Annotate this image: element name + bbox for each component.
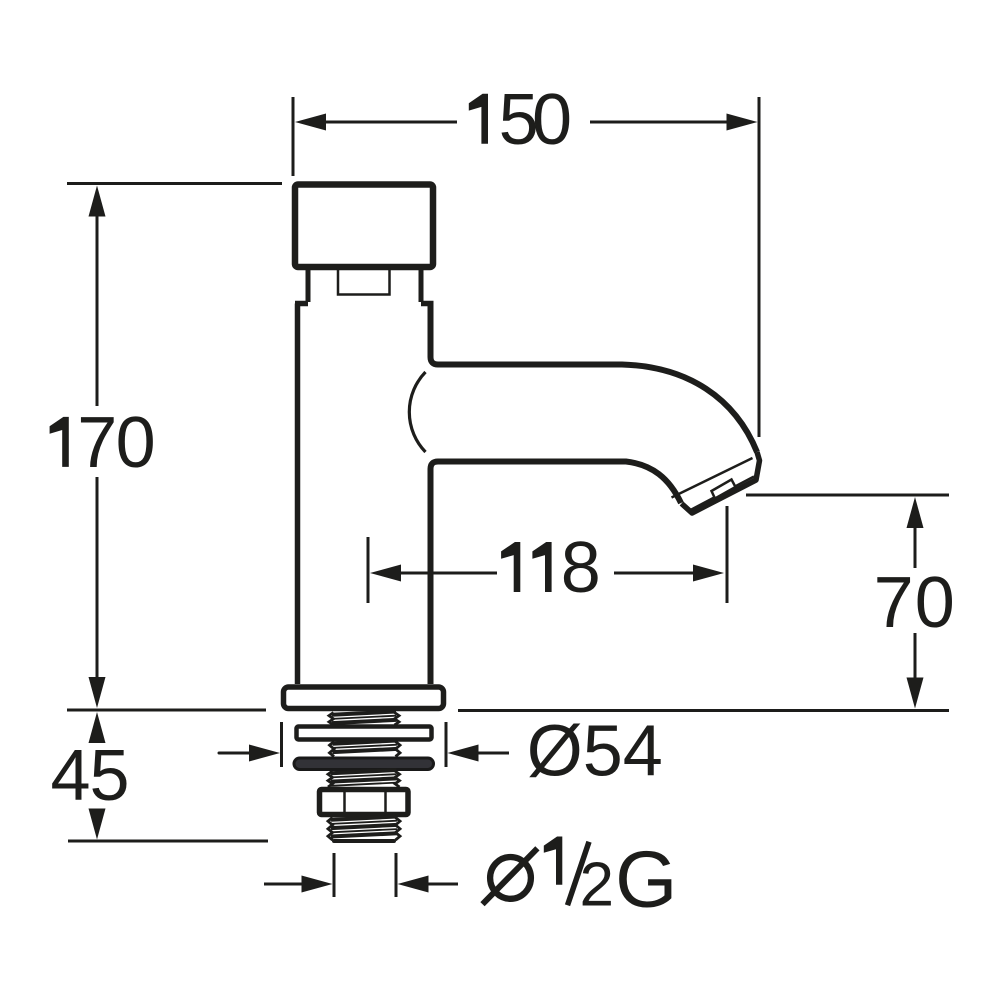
svg-text:7: 7 [77, 403, 117, 483]
svg-text:7: 7 [874, 563, 914, 643]
svg-text:G: G [615, 835, 677, 924]
svg-text:0: 0 [532, 80, 572, 160]
svg-text:Ø54: Ø54 [527, 712, 663, 792]
svg-text:0: 0 [116, 403, 156, 483]
svg-text:8: 8 [561, 528, 601, 608]
svg-text:0: 0 [915, 563, 955, 643]
svg-text:5: 5 [90, 736, 130, 816]
svg-text:2: 2 [580, 851, 614, 920]
svg-text:4: 4 [51, 736, 91, 816]
